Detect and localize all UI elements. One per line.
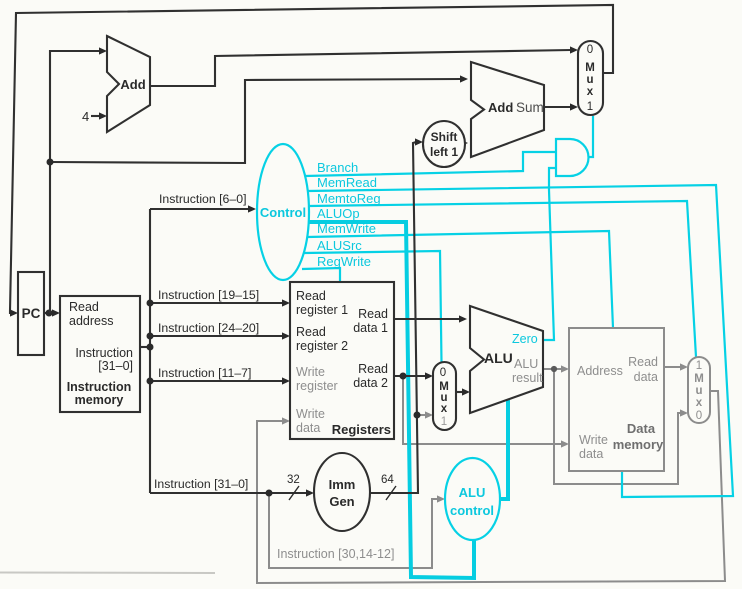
wire PC Mux output feedback to PC input — [10, 5, 613, 317]
wire ALU result down-around to writeback Mux 0 input — [554, 369, 688, 484]
label ALU control — [450, 485, 494, 518]
imm gen oval — [314, 453, 370, 531]
svg-text:ALUSrc: ALUSrc — [317, 238, 362, 253]
svg-text:Shift: Shift — [431, 130, 458, 144]
wire MemtoReg control to writeback Mux select — [309, 201, 696, 357]
svg-text:Sum: Sum — [516, 100, 544, 115]
label data memory ports — [577, 355, 658, 461]
svg-text:memory: memory — [75, 393, 124, 407]
wire constant 4 into Add — [91, 112, 107, 119]
svg-text:x: x — [441, 403, 448, 415]
svg-text:MemtoReg: MemtoReg — [317, 191, 381, 206]
svg-text:MemRead: MemRead — [317, 175, 377, 190]
svg-text:Add: Add — [488, 100, 513, 115]
svg-text:u: u — [586, 74, 593, 86]
wire Instruction [6-0] to Control — [150, 205, 256, 212]
AND gate branch — [556, 139, 589, 176]
wire Data memory Read data to Mux 1 input — [664, 363, 688, 370]
svg-text:data: data — [579, 447, 603, 461]
adder Add Sum (branch target) — [471, 62, 544, 157]
scan artifact rule bottom left — [0, 572, 215, 575]
svg-text:M: M — [694, 373, 704, 385]
wire branch Add Sum output to PC Mux 1 input — [544, 103, 578, 110]
wire ALUOp control to ALU control unit — [308, 222, 474, 578]
wire ALU Mux output to ALU bottom input — [456, 388, 470, 395]
svg-text:Instruction: Instruction — [75, 346, 133, 360]
svg-text:M: M — [585, 62, 595, 74]
svg-text:ALUOp: ALUOp — [317, 206, 360, 221]
wire ALU result to Data memory Address — [543, 365, 569, 372]
svg-text:Read: Read — [358, 307, 388, 321]
svg-text:Instruction [11–7]: Instruction [11–7] — [158, 366, 251, 380]
adder Add (PC+4) — [107, 36, 150, 132]
svg-text:Control: Control — [260, 205, 306, 220]
svg-text:register 1: register 1 — [296, 303, 348, 317]
svg-text:Write: Write — [296, 407, 325, 421]
wire Branch control to AND gate — [305, 152, 556, 176]
svg-text:MemWrite: MemWrite — [317, 221, 376, 236]
wire Read data 2 to Data memory Write data — [403, 376, 569, 448]
wire ALUSrc control to ALU Mux select — [304, 251, 442, 362]
svg-text:1: 1 — [587, 101, 593, 113]
label mux writeback — [694, 360, 704, 422]
label registers ports — [296, 289, 388, 390]
svg-text:register 2: register 2 — [296, 339, 348, 353]
svg-text:Read: Read — [628, 355, 658, 369]
wire Add output PC+4 to PC Mux 0 input — [149, 46, 578, 86]
svg-text:Instruction: Instruction — [67, 380, 132, 394]
svg-text:Instruction [30,14-12]: Instruction [30,14-12] — [277, 547, 394, 561]
label control signals — [317, 160, 381, 269]
label mux PC source — [585, 44, 595, 113]
wire Instruction [11-7] to Write register — [150, 377, 290, 384]
svg-text:Read: Read — [69, 300, 99, 314]
svg-text:Instruction [19–15]: Instruction [19–15] — [158, 288, 259, 302]
wire MemRead control to Data memory bottom — [308, 185, 733, 497]
instruction memory — [60, 296, 140, 412]
svg-text:x: x — [587, 86, 594, 98]
svg-text:[31–0]: [31–0] — [98, 359, 133, 373]
wire MemWrite control to Data memory top — [307, 231, 613, 328]
svg-text:RegWrite: RegWrite — [317, 254, 371, 269]
wire PC to branch Add top input — [50, 75, 468, 163]
svg-text:1: 1 — [696, 360, 702, 372]
svg-text:Instruction [6–0]: Instruction [6–0] — [159, 192, 247, 206]
registers — [290, 282, 394, 439]
wire Instruction [31-0] to Imm Gen — [150, 489, 314, 496]
wire writeback from Mux to Registers Write data — [257, 391, 725, 583]
wire Instruction [24-20] to Read register 2 — [150, 332, 290, 339]
svg-text:0: 0 — [696, 410, 702, 422]
svg-text:1: 1 — [441, 416, 447, 428]
wire Read data 2 to ALU Mux 0 input — [394, 372, 433, 379]
svg-text:data: data — [296, 421, 320, 435]
svg-text:ALU: ALU — [459, 485, 486, 500]
svg-text:32: 32 — [287, 474, 300, 486]
control unit oval — [257, 144, 309, 280]
svg-text:register: register — [296, 379, 338, 393]
wire PC up to Add — [50, 47, 107, 313]
node immediate junction — [266, 490, 273, 497]
svg-text:data 1: data 1 — [353, 321, 388, 335]
wire PC output to Instruction memory — [44, 309, 60, 316]
ALU control oval — [445, 458, 500, 540]
svg-text:memory: memory — [613, 437, 664, 452]
svg-text:4: 4 — [82, 109, 89, 124]
wire AND gate output to PC Mux select — [588, 116, 593, 157]
svg-text:x: x — [696, 397, 703, 409]
node bus junction 19-15 — [147, 300, 154, 307]
wire instruction bus vertical — [149, 209, 151, 493]
wire slash 64 bits — [386, 486, 396, 500]
wire Imm Gen output up to Shift left 1 — [370, 138, 423, 493]
svg-text:data 2: data 2 — [353, 376, 388, 390]
wire Shift left 1 output to branch Add — [460, 139, 468, 146]
svg-text:PC: PC — [22, 306, 41, 321]
PC register — [18, 272, 44, 355]
svg-text:control: control — [450, 503, 494, 518]
wire Instruction memory output to bus — [140, 346, 150, 348]
svg-text:result: result — [512, 371, 543, 385]
node bus junction 24-20 — [147, 333, 154, 340]
label instruction memory ports — [69, 300, 133, 373]
node Read data 2 junction — [400, 373, 407, 380]
ALU U1 — [470, 306, 543, 413]
wire Zero flag to AND gate — [543, 168, 556, 340]
svg-text:Write: Write — [296, 365, 325, 379]
svg-text:Write: Write — [579, 433, 608, 447]
mux ALUSrc — [433, 362, 456, 430]
svg-text:u: u — [695, 385, 702, 397]
wire RegWrite control to Registers — [302, 268, 340, 282]
svg-text:Add: Add — [120, 77, 145, 92]
wire slash 32 bits — [289, 486, 299, 500]
label instruction fields — [154, 192, 259, 491]
svg-text:0: 0 — [440, 367, 446, 379]
svg-text:address: address — [69, 314, 113, 328]
mux MemtoReg writeback — [688, 357, 710, 423]
svg-text:Read: Read — [296, 325, 326, 339]
wire Instruction [19-15] to Read register 1 — [150, 299, 290, 306]
label Instruction memory name — [67, 380, 132, 407]
wire Read data 1 to ALU — [394, 315, 467, 322]
svg-text:Read: Read — [296, 289, 326, 303]
node bus junction 11-7 — [147, 378, 154, 385]
wire ALU control output to ALU — [500, 398, 508, 499]
node PC branch junction — [47, 159, 54, 166]
label mux ALUSrc — [439, 367, 449, 428]
node immediate to mux junction — [414, 412, 421, 419]
svg-text:Instruction [31–0]: Instruction [31–0] — [154, 477, 248, 491]
node PC output junction — [46, 310, 53, 317]
svg-text:64: 64 — [381, 474, 394, 486]
node bus junction instruction output — [147, 344, 154, 351]
wire Instruction [30,14-12] to ALU control — [269, 493, 445, 568]
label Data memory name — [613, 421, 664, 452]
svg-text:Branch: Branch — [317, 160, 358, 175]
svg-text:Gen: Gen — [329, 494, 354, 509]
mux PC source — [578, 41, 603, 115]
svg-text:ALU: ALU — [484, 350, 513, 366]
svg-text:left 1: left 1 — [430, 145, 458, 159]
svg-text:Data: Data — [627, 421, 656, 436]
svg-text:Registers: Registers — [332, 422, 391, 437]
svg-text:Address: Address — [577, 364, 623, 378]
svg-text:0: 0 — [587, 44, 593, 56]
node ALU result junction — [551, 366, 557, 372]
wire immediate tap to ALUSrc Mux 1 input — [418, 411, 433, 418]
shift left 1 oval — [423, 121, 465, 167]
svg-text:Zero: Zero — [512, 332, 538, 346]
label Shift left 1 — [430, 130, 458, 159]
svg-text:Imm: Imm — [329, 477, 356, 492]
label ALU result — [512, 357, 543, 385]
label Imm Gen — [329, 477, 356, 509]
data memory — [569, 328, 664, 471]
svg-text:Read: Read — [358, 362, 388, 376]
svg-text:data: data — [634, 370, 658, 384]
svg-text:Instruction [24–20]: Instruction [24–20] — [158, 321, 259, 335]
svg-text:ALU: ALU — [514, 357, 538, 371]
